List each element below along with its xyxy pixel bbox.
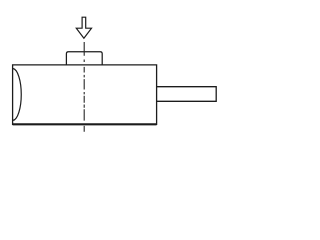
load cell body xyxy=(13,65,157,124)
cable xyxy=(157,87,217,102)
centerline xyxy=(83,42,85,132)
left end arc xyxy=(13,69,21,121)
force arrow xyxy=(76,17,91,38)
load button xyxy=(66,52,102,65)
